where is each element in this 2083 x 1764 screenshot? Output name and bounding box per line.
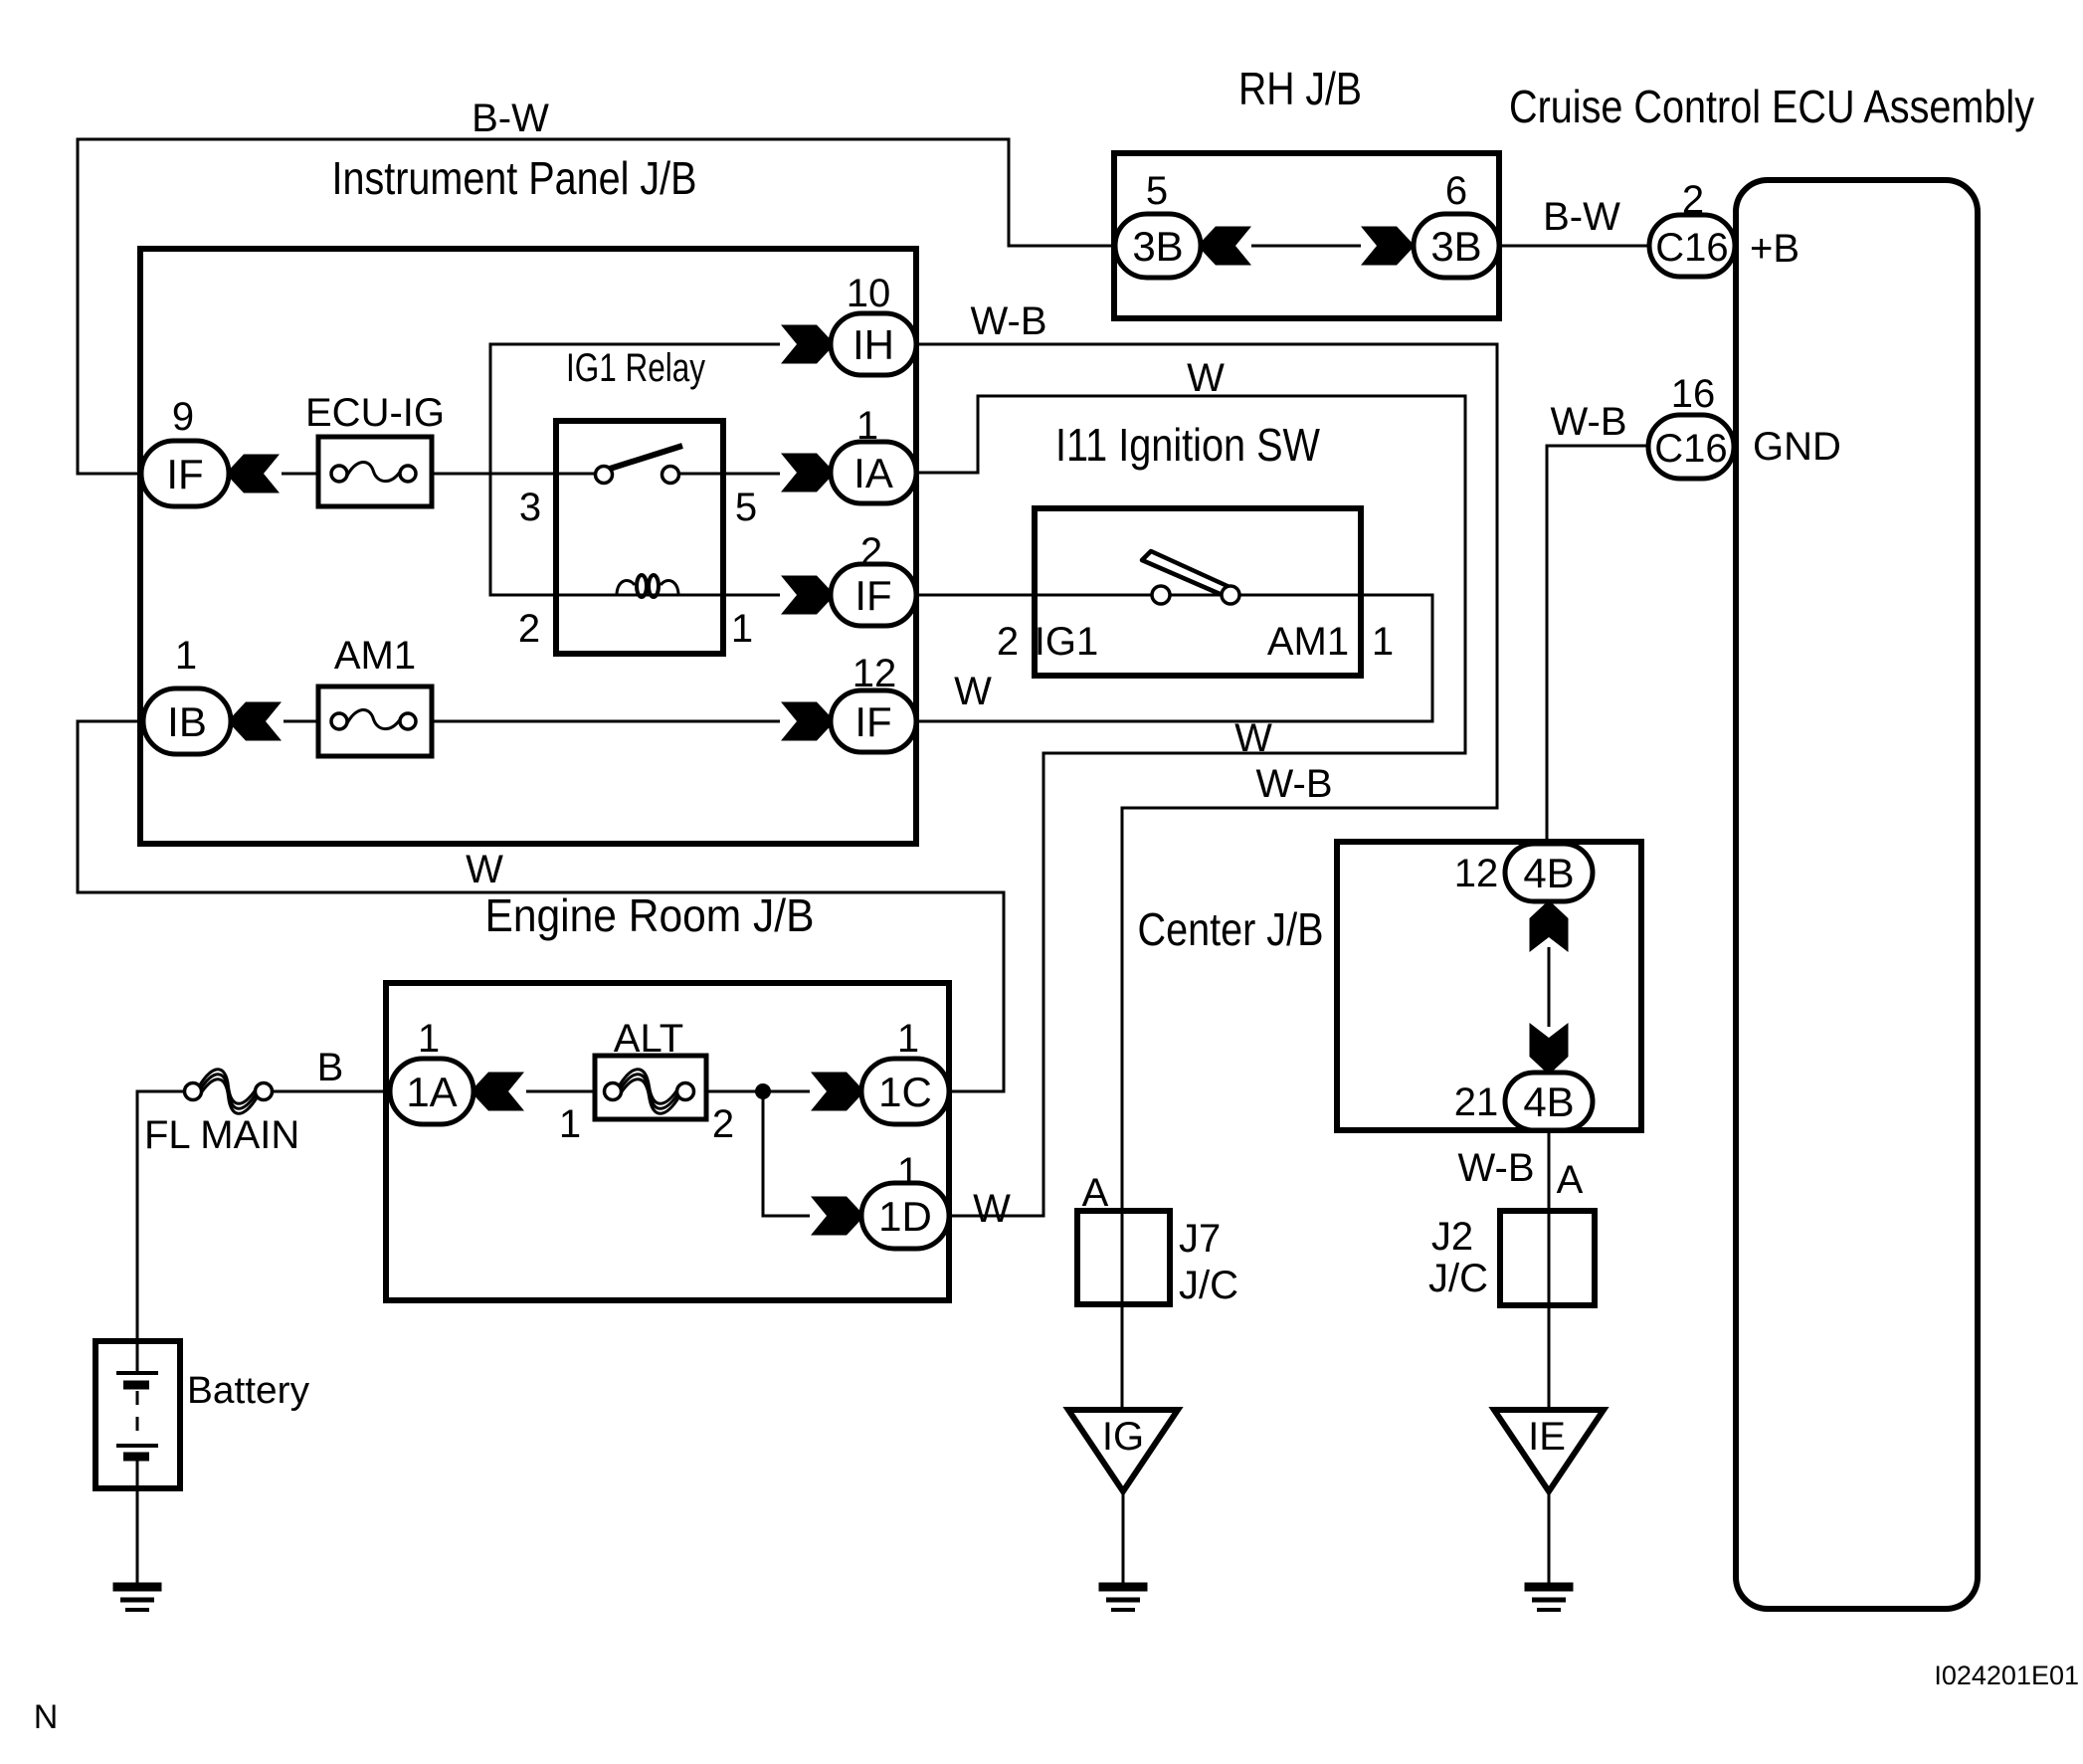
ground IG [1099, 1587, 1148, 1610]
svg-text:12: 12 [852, 652, 897, 695]
svg-text:1: 1 [1372, 620, 1394, 664]
svg-text:AM1: AM1 [334, 634, 416, 678]
arrow up to 4B(12) [1530, 903, 1569, 952]
wire 4B(21) to J2 J/C to IE [1548, 1130, 1551, 1410]
svg-text:IA: IA [853, 450, 893, 496]
svg-text:IG: IG [1102, 1415, 1144, 1459]
svg-text:W-B: W-B [1255, 762, 1332, 806]
arrow to 1C [811, 1073, 861, 1111]
wire IG1 relay pin 1 to IF(2) [556, 594, 780, 597]
svg-text:B-W: B-W [1543, 195, 1620, 239]
svg-text:N: N [34, 1698, 59, 1736]
arrow from 1A [473, 1073, 524, 1111]
arrow down to 4B(21) [1530, 1023, 1569, 1072]
svg-text:I11 Ignition SW: I11 Ignition SW [1055, 419, 1320, 471]
svg-text:Battery: Battery [187, 1370, 309, 1412]
svg-text:1: 1 [856, 404, 878, 448]
svg-text:B-W: B-W [472, 97, 549, 140]
svg-text:A: A [1557, 1158, 1584, 1202]
junction connector J7 J/C [1077, 1211, 1170, 1304]
node IF pin 12 [831, 690, 916, 752]
fuse ALT [595, 1056, 706, 1119]
wire W from IB to 1C [78, 721, 1004, 1091]
svg-text:C16: C16 [1654, 427, 1727, 471]
wire ignition switch internal [1035, 594, 1361, 597]
relay IG1 coil [617, 575, 678, 597]
ECU Cruise Control ECU Assembly [1736, 180, 1978, 1609]
svg-text:J/C: J/C [1179, 1264, 1238, 1307]
svg-text:W: W [1187, 356, 1225, 400]
arrow to IH [781, 325, 832, 364]
svg-text:W-B: W-B [1550, 400, 1626, 444]
junction box Engine Room J/B [386, 983, 949, 1300]
svg-text:W: W [1234, 716, 1272, 760]
junction connector J2 J/C [1500, 1211, 1595, 1305]
wire ignition switch AM1 pin 1 to IF(12) [916, 595, 1432, 721]
svg-text:Cruise Control ECU Assembly: Cruise Control ECU Assembly [1509, 81, 2034, 132]
wire battery feed to FL MAIN [137, 1091, 185, 1341]
svg-text:RH J/B: RH J/B [1238, 63, 1362, 114]
svg-text:I024201E01: I024201E01 [1934, 1661, 2079, 1690]
ground connector IG triangle [1068, 1410, 1178, 1491]
svg-text:4B: 4B [1523, 1078, 1574, 1125]
svg-text:16: 16 [1671, 372, 1716, 416]
wire ECU-IG fuse to IG1 relay pin 3 [432, 473, 597, 476]
svg-text:B: B [317, 1046, 344, 1089]
svg-text:IF: IF [166, 451, 203, 497]
svg-text:IG1: IG1 [1035, 620, 1098, 664]
svg-text:AM1: AM1 [1267, 620, 1349, 664]
svg-text:1D: 1D [878, 1193, 932, 1240]
wire W-B from IH to J7 J/C [916, 344, 1497, 1410]
svg-text:IE: IE [1528, 1415, 1566, 1459]
svg-text:2: 2 [997, 620, 1019, 664]
svg-text:6: 6 [1445, 169, 1467, 213]
svg-text:1: 1 [731, 607, 753, 651]
svg-text:J2: J2 [1431, 1215, 1473, 1259]
svg-text:5: 5 [735, 486, 757, 529]
svg-text:J7: J7 [1179, 1217, 1221, 1261]
wire IG to ground [1122, 1491, 1125, 1585]
svg-text:GND: GND [1753, 425, 1841, 469]
node IH pin 10 [831, 313, 916, 375]
svg-text:1: 1 [897, 1017, 919, 1061]
svg-text:IF: IF [854, 572, 891, 619]
svg-text:W-B: W-B [1457, 1146, 1534, 1190]
svg-text:3: 3 [519, 486, 541, 529]
arrow from IB [231, 702, 282, 741]
wire branch junction to 1D [763, 1091, 810, 1216]
wire IG1 relay pin 5 to IA [677, 473, 780, 476]
junction box Instrument Panel J/B [140, 249, 916, 844]
ground battery [113, 1587, 162, 1610]
arrow to 3B right [1361, 227, 1412, 266]
wire B-W from 3B to C16 +B [1499, 245, 1649, 248]
fusible link FL MAIN [185, 1070, 273, 1114]
relay IG1 switch contacts [596, 446, 683, 484]
svg-text:2: 2 [712, 1102, 734, 1146]
node 4B pin 21 [1505, 1073, 1593, 1130]
arrow from IF(9) [229, 455, 280, 493]
svg-text:IH: IH [852, 321, 894, 368]
svg-text:1: 1 [559, 1102, 581, 1146]
node IB pin 1 [143, 688, 231, 754]
svg-text:W-B: W-B [970, 299, 1046, 343]
svg-text:21: 21 [1454, 1080, 1499, 1124]
svg-text:1: 1 [897, 1150, 919, 1194]
wire IF(9) to ECU-IG fuse [282, 473, 318, 476]
svg-text:2: 2 [1682, 178, 1704, 222]
svg-text:A: A [1082, 1171, 1109, 1215]
junction box Center J/B [1337, 842, 1641, 1130]
node 1A pin 1 [390, 1059, 473, 1124]
svg-text:Center J/B: Center J/B [1138, 903, 1324, 955]
svg-text:1A: 1A [406, 1069, 457, 1115]
node 1D pin 1 [861, 1183, 949, 1249]
node 3B pin 6 [1414, 214, 1499, 278]
svg-text:IG1 Relay: IG1 Relay [566, 346, 705, 390]
arrow from 3B left [1201, 227, 1251, 266]
svg-text:3B: 3B [1430, 223, 1481, 270]
ground IE [1525, 1587, 1574, 1610]
junction box RH J/B [1114, 153, 1499, 318]
wire IG1 relay pin 2 to IH (W-B) [490, 344, 780, 595]
svg-text:1: 1 [418, 1017, 440, 1061]
wire W from IA to 1D [916, 396, 1465, 1216]
switch I11 contacts and lever [1142, 551, 1239, 604]
svg-text:W: W [973, 1187, 1011, 1231]
svg-text:3B: 3B [1132, 223, 1183, 270]
svg-text:IB: IB [167, 698, 207, 745]
svg-text:9: 9 [172, 395, 194, 439]
node IF pin 2 [831, 564, 916, 626]
svg-text:1: 1 [175, 634, 197, 678]
wire shaft between 4B arrows [1548, 947, 1551, 1027]
wire AM1 fuse to IF(12) [432, 720, 780, 723]
svg-text:Engine Room J/B: Engine Room J/B [485, 889, 815, 941]
svg-text:2: 2 [518, 607, 540, 651]
arrow to 1D [811, 1197, 861, 1236]
wire ALT fuse to 1C [706, 1090, 810, 1093]
switch I11 Ignition SW box [1035, 508, 1361, 676]
node IA pin 1 [831, 442, 916, 503]
svg-text:1C: 1C [878, 1069, 932, 1115]
svg-text:C16: C16 [1655, 226, 1728, 270]
fuse AM1 [318, 686, 432, 756]
svg-text:W: W [954, 670, 992, 713]
wire B-W from IF(9) to RH J/B 3B [78, 139, 1116, 474]
svg-text:ALT: ALT [614, 1017, 683, 1061]
svg-text:2: 2 [860, 530, 882, 574]
svg-text:J/C: J/C [1428, 1257, 1488, 1300]
battery [95, 1341, 180, 1488]
junction dot [755, 1083, 771, 1099]
wire IE to ground [1548, 1491, 1551, 1585]
node IF pin 9 [141, 441, 229, 506]
svg-text:+B: +B [1750, 227, 1799, 271]
svg-text:4B: 4B [1523, 850, 1574, 896]
svg-text:Instrument Panel J/B: Instrument Panel J/B [332, 152, 697, 204]
wire W-B from C16 GND to 4B(12) [1547, 446, 1648, 844]
wire IB to AM1 fuse [284, 720, 318, 723]
fuse ECU-IG [318, 437, 432, 506]
node C16 pin 16 (GND) [1648, 415, 1734, 479]
wire RH J/B 3B to 3B [1251, 245, 1361, 248]
node 3B pin 5 [1115, 214, 1201, 278]
arrow to IF(12) [781, 702, 832, 741]
wire 1A to ALT fuse [526, 1090, 595, 1093]
svg-text:IF: IF [854, 698, 891, 745]
relay IG1 Relay box [556, 421, 723, 654]
ground connector IE triangle [1494, 1410, 1604, 1491]
svg-text:12: 12 [1454, 852, 1499, 895]
node 4B pin 12 [1505, 844, 1593, 901]
wire FL MAIN to 1A (B) [272, 1090, 390, 1093]
svg-text:ECU-IG: ECU-IG [305, 391, 445, 435]
node C16 pin 2 (+B) [1649, 215, 1735, 277]
arrow to IA [781, 454, 832, 492]
svg-text:5: 5 [1146, 169, 1168, 213]
arrow to IF(2) [781, 576, 832, 615]
svg-text:FL MAIN: FL MAIN [144, 1113, 299, 1157]
node 1C pin 1 [861, 1059, 949, 1124]
wire IF(2) to ignition switch IG1 pin 2 [916, 594, 1035, 597]
wire battery to ground [136, 1457, 139, 1585]
svg-text:10: 10 [847, 272, 891, 315]
svg-text:W: W [466, 848, 503, 891]
